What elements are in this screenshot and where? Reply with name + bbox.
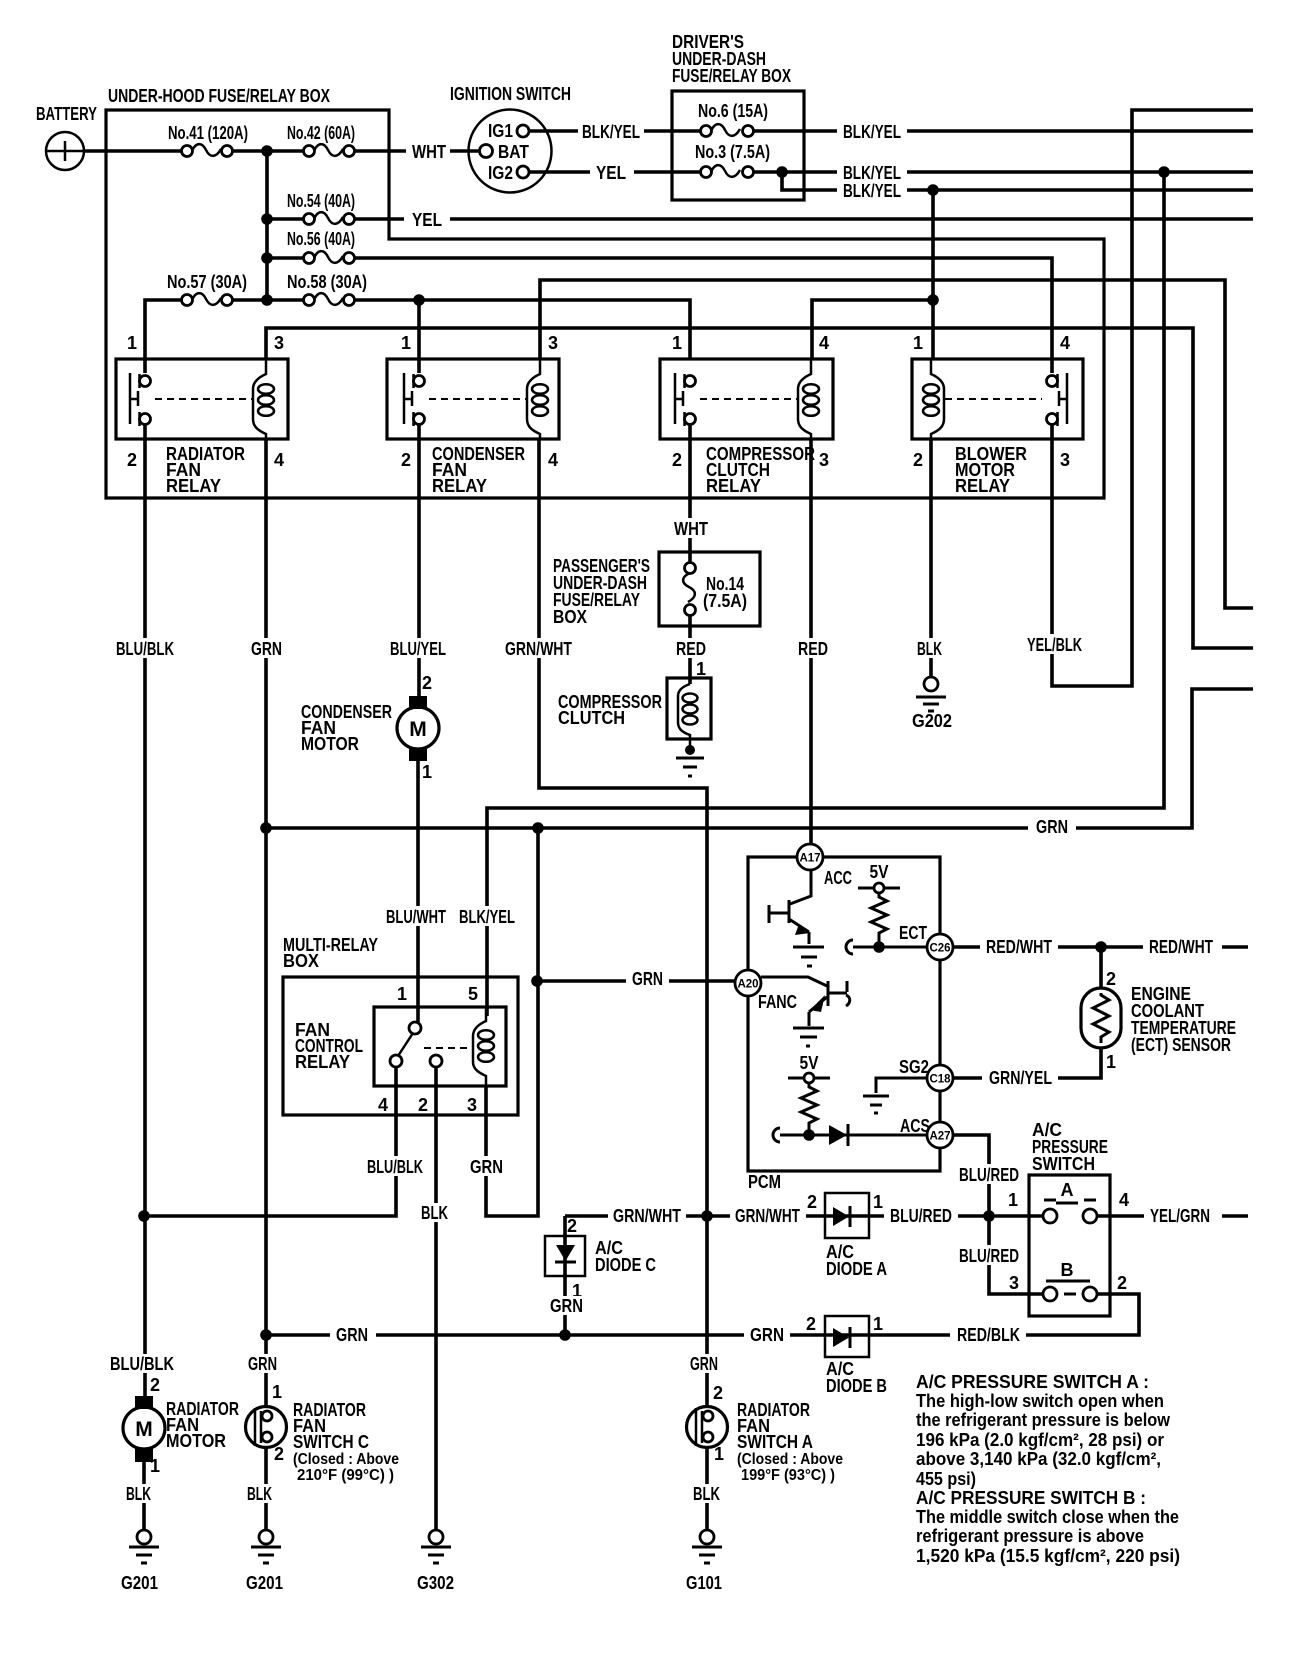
wire BLK/YEL riser to blower pin 1 [931, 190, 935, 359]
svg-text:G201: G201 [246, 1573, 283, 1593]
label pin numbers condenser relay [401, 333, 558, 470]
svg-text:SG2: SG2 [899, 1057, 929, 1077]
svg-text:RED: RED [676, 639, 706, 659]
wire compressor coil pin 4 feed [812, 300, 933, 359]
label A/C DIODE C [595, 1238, 656, 1275]
A/C diode B box [825, 1316, 869, 1357]
svg-text:BLK: BLK [693, 1484, 720, 1504]
fuse No.41 [182, 144, 233, 156]
compressor clutch relay [660, 359, 833, 439]
svg-text:1: 1 [1106, 1052, 1116, 1072]
label BLU/BLK bottom [106, 1354, 180, 1374]
svg-text:210°F (99°C) ): 210°F (99°C) ) [297, 1467, 394, 1484]
svg-text:4: 4 [1119, 1190, 1129, 1210]
svg-text:RED/BLK: RED/BLK [957, 1325, 1020, 1345]
svg-text:RED/WHT: RED/WHT [986, 937, 1052, 957]
multi-relay box outline [283, 977, 518, 1115]
svg-text:ACS: ACS [900, 1116, 930, 1136]
svg-text:3: 3 [274, 333, 284, 353]
svg-text:above 3,140 kPa (32.0 kgf/cm²,: above 3,140 kPa (32.0 kgf/cm², [916, 1449, 1161, 1469]
wire condenser relay pin 1 [417, 300, 421, 373]
label BLK blower pin 2 [912, 638, 949, 659]
wire No.56 row to blower pin 4 [267, 258, 1052, 373]
svg-text:DIODE A: DIODE A [826, 1259, 887, 1279]
wire GRN radiator pin 4 down to switch C [264, 439, 268, 1407]
svg-text:2: 2 [806, 1314, 816, 1334]
svg-text:2: 2 [1106, 969, 1116, 989]
label diode A pins [807, 1192, 883, 1212]
label CONDENSER FAN RELAY [432, 444, 525, 496]
wire No.3 BLK/YEL output [748, 170, 1253, 174]
5V reference lower [788, 1073, 830, 1083]
label YEL at IG2 [590, 162, 634, 183]
label pin numbers compressor relay [672, 333, 829, 470]
label YEL/GRN [1144, 1205, 1216, 1226]
svg-text:2: 2 [422, 673, 432, 693]
wire BLU/WHT motor to fan relay pin 1 [416, 761, 420, 1022]
svg-text:4: 4 [819, 333, 829, 353]
label BLK/YEL fan relay pin 5 [455, 906, 519, 927]
svg-text:1,520 kPa (15.5 kgf/cm², 220 p: 1,520 kPa (15.5 kgf/cm², 220 psi) [916, 1546, 1180, 1566]
label RED/WHT left [980, 936, 1058, 957]
svg-text:5: 5 [468, 984, 478, 1004]
label IG1 BAT IG2 [488, 121, 529, 183]
svg-text:GRN: GRN [248, 1354, 277, 1374]
svg-text:1: 1 [127, 333, 137, 353]
condenser fan motor [397, 696, 439, 761]
wire BLK/YEL branch jog [782, 172, 1253, 190]
svg-text:3: 3 [1009, 1273, 1019, 1293]
label MULTI-RELAY BOX [283, 935, 378, 971]
svg-text:BLK: BLK [917, 639, 942, 659]
label pin numbers blower relay [913, 333, 1070, 470]
fuse No.57 [182, 293, 233, 305]
label DRIVER'S UNDER-DASH FUSE/RELAY BOX [672, 32, 791, 86]
label RADIATOR FAN RELAY [166, 444, 245, 496]
svg-text:RELAY: RELAY [166, 476, 221, 496]
wire ECT sensor pin 1 and GRN/YEL to C18 [953, 1048, 1101, 1078]
label BLOWER MOTOR RELAY [955, 444, 1027, 496]
svg-text:BOX: BOX [283, 951, 319, 971]
svg-text:1: 1 [1008, 1190, 1018, 1210]
label GRN bottom row left [330, 1324, 376, 1345]
label pressure switch B and pins [1009, 1260, 1127, 1293]
svg-text:The high-low switch open when: The high-low switch open when [916, 1391, 1164, 1411]
label BLU/RED lower [954, 1245, 1024, 1266]
wire GRN row to PCM A20 [537, 979, 735, 983]
svg-text:4: 4 [378, 1095, 388, 1115]
svg-text:2: 2 [274, 1444, 284, 1464]
label PASSENGER'S UNDER-DASH FUSE/RELAY BOX [553, 556, 650, 627]
PCM connector C26 [927, 934, 953, 960]
wire No.58 row to compressor relay pin 1 [227, 300, 690, 359]
ECT sensor [1081, 988, 1121, 1048]
radiator fan motor [123, 1396, 165, 1462]
svg-text:3: 3 [467, 1095, 477, 1115]
svg-text:G302: G302 [417, 1573, 454, 1593]
5V reference upper [858, 883, 900, 893]
svg-text:BLU/BLK: BLU/BLK [110, 1354, 174, 1374]
label GRN above switch A [686, 1354, 724, 1374]
svg-text:GRN: GRN [336, 1325, 368, 1345]
svg-text:GRN/WHT: GRN/WHT [505, 639, 572, 659]
svg-text:the refrigerant pressure is be: the refrigerant pressure is below [916, 1410, 1171, 1430]
svg-text:BLU/WHT: BLU/WHT [386, 907, 446, 927]
svg-text:IG1: IG1 [488, 121, 513, 141]
label RED compressor pin 3 [792, 638, 834, 659]
svg-text:SWITCH C: SWITCH C [293, 1432, 369, 1452]
passenger's under-dash fuse/relay box outline [659, 552, 760, 626]
svg-text:IGNITION SWITCH: IGNITION SWITCH [450, 84, 571, 104]
svg-text:2: 2 [150, 1375, 160, 1395]
A/C pressure switch box [1029, 1175, 1110, 1316]
radiator fan switch A [687, 1407, 728, 1448]
svg-text:C18: C18 [929, 1074, 951, 1086]
svg-text:IG2: IG2 [488, 163, 513, 183]
svg-text:199°F (93°C) ): 199°F (93°C) ) [741, 1467, 835, 1484]
svg-text:B: B [1061, 1260, 1074, 1280]
svg-text:A17: A17 [799, 853, 820, 865]
label GRN before diode B [744, 1324, 790, 1345]
svg-text:G101: G101 [686, 1573, 722, 1593]
svg-text:1: 1 [873, 1192, 883, 1212]
A/C pressure switch B contacts [1043, 1281, 1097, 1301]
wire A/C diode C branch [563, 1216, 567, 1335]
wire radiator fan motor to G201 [142, 1461, 146, 1530]
ignition switch [469, 110, 552, 193]
wire BLK/YEL riser x=1164 to y=808 row to fan relay pin 5 [487, 172, 1164, 1016]
svg-text:BATTERY: BATTERY [36, 104, 97, 124]
svg-text:BLU/BLK: BLU/BLK [367, 1157, 423, 1177]
svg-text:BLU/BLK: BLU/BLK [116, 639, 174, 659]
fuse No.6 [701, 124, 754, 136]
svg-text:2: 2 [418, 1095, 428, 1115]
svg-text:A/C PRESSURE SWITCH A :: A/C PRESSURE SWITCH A : [916, 1372, 1149, 1392]
wire pressure switch B contacts lead [1029, 1292, 1110, 1296]
svg-text:refrigerant pressure is above: refrigerant pressure is above [916, 1526, 1144, 1546]
label BLK radiator motor [122, 1484, 156, 1504]
svg-text:RED/WHT: RED/WHT [1149, 937, 1213, 957]
svg-text:C26: C26 [929, 943, 950, 955]
svg-text:(Closed : Above: (Closed : Above [293, 1451, 399, 1468]
svg-text:GRN/YEL: GRN/YEL [989, 1068, 1052, 1088]
svg-text:A27: A27 [929, 1131, 950, 1143]
label COMPRESSOR CLUTCH RELAY [706, 444, 815, 496]
svg-text:GRN: GRN [251, 639, 282, 659]
svg-text:BLU/RED: BLU/RED [890, 1206, 952, 1226]
svg-text:BLK/YEL: BLK/YEL [582, 122, 640, 142]
svg-text:1: 1 [401, 333, 411, 353]
wire IG1 to No.6 fuse [529, 129, 706, 133]
wire bottom GRN row and RED/BLK to switch B pin 2 [266, 1294, 1139, 1335]
ACS row with diode inside PCM [773, 1124, 927, 1146]
svg-text:A/C PRESSURE SWITCH B :: A/C PRESSURE SWITCH B : [916, 1488, 1146, 1508]
svg-text:No.6 (15A): No.6 (15A) [698, 101, 768, 121]
svg-text:BLK: BLK [421, 1203, 448, 1223]
label BLK fan relay pin 2 [417, 1203, 455, 1223]
label A/C PRESSURE SWITCH [1032, 1120, 1108, 1174]
fuse No.58 [304, 293, 355, 305]
wire GRN/WHT row y=1216 [565, 1214, 1029, 1218]
ECT row inside PCM [846, 940, 927, 954]
fuse No.14 vertical [683, 563, 695, 616]
svg-text:(Closed : Above: (Closed : Above [737, 1451, 843, 1468]
svg-text:G201: G201 [121, 1573, 158, 1593]
label GRN/WHT row right [730, 1205, 806, 1226]
svg-text:The middle switch close when t: The middle switch close when the [916, 1507, 1179, 1527]
svg-text:2: 2 [713, 1383, 723, 1403]
svg-text:GRN: GRN [632, 969, 663, 989]
svg-text:M: M [409, 718, 427, 741]
transistor ACC [769, 870, 824, 966]
svg-text:1: 1 [397, 984, 407, 1004]
label RED compressor pin 2 [670, 638, 712, 659]
svg-text:No.42 (60A): No.42 (60A) [287, 123, 355, 143]
svg-text:1: 1 [422, 762, 432, 782]
A/C diode C symbol [555, 1245, 576, 1262]
ground G202 [916, 677, 946, 711]
wire switch A to G101 [705, 1447, 709, 1530]
svg-text:PCM: PCM [748, 1172, 781, 1192]
radiator fan switch C [246, 1407, 287, 1448]
label BLU/RED upper [954, 1164, 1024, 1185]
svg-text:No.58 (30A): No.58 (30A) [287, 272, 367, 292]
label BLU/BLK fan relay pin 4 [362, 1156, 428, 1177]
label BLU/WHT [380, 906, 452, 927]
svg-text:(ECT) SENSOR: (ECT) SENSOR [1131, 1035, 1231, 1055]
svg-text:No.54 (40A): No.54 (40A) [287, 191, 355, 211]
label GRN fan relay pin 3 [464, 1156, 509, 1177]
label YEL/BLK blower pin 3 [1022, 634, 1087, 655]
svg-text:3: 3 [1060, 450, 1070, 470]
svg-text:No.41 (120A): No.41 (120A) [168, 123, 248, 143]
wire GRN row y=828 to right exit [266, 689, 1253, 828]
label BLU/BLK column [112, 638, 178, 659]
resistor lower [801, 1083, 817, 1135]
wire RED compressor pin 3 to PCM A17 [809, 439, 813, 845]
svg-text:3: 3 [548, 333, 558, 353]
svg-text:UNDER-HOOD FUSE/RELAY BOX: UNDER-HOOD FUSE/RELAY BOX [108, 86, 330, 106]
svg-text:FUSE/RELAY BOX: FUSE/RELAY BOX [672, 66, 791, 86]
svg-text:GRN: GRN [1036, 817, 1068, 837]
fan control relay internals [390, 1007, 494, 1086]
wire No.57 to radiator relay pin 1 [145, 300, 187, 373]
PCM box outline [748, 857, 940, 1171]
svg-text:A: A [1061, 1180, 1074, 1200]
wire BLU/BLK fan relay pin 4 over to radiator fan column [144, 1067, 396, 1216]
label GRN below diode C [545, 1296, 590, 1316]
label ENGINE COOLANT TEMPERATURE (ECT) SENSOR [1131, 984, 1236, 1055]
label BLU/YEL column [384, 638, 452, 659]
svg-text:3: 3 [819, 450, 829, 470]
label GRN right row [1028, 817, 1076, 837]
svg-text:BLU/RED: BLU/RED [959, 1246, 1019, 1266]
svg-text:455 psi): 455 psi) [916, 1469, 976, 1489]
label FAN CONTROL RELAY [295, 1020, 363, 1072]
label A/C DIODE A [826, 1242, 887, 1279]
svg-text:YEL: YEL [412, 210, 442, 230]
compressor clutch ground [676, 745, 704, 776]
svg-text:GRN: GRN [470, 1157, 503, 1177]
svg-text:GRN/WHT: GRN/WHT [735, 1206, 800, 1226]
svg-text:BLK/YEL: BLK/YEL [843, 181, 901, 201]
label YEL No.54 row [404, 209, 450, 230]
fuse No.54 [304, 212, 355, 224]
wire BLU/BLK radiator pin 2 to radiator fan motor [143, 425, 147, 1396]
svg-text:GRN/WHT: GRN/WHT [613, 1206, 681, 1226]
label pressure switch A and pins [1008, 1180, 1129, 1210]
svg-text:RELAY: RELAY [432, 476, 487, 496]
svg-text:1: 1 [696, 659, 706, 679]
svg-text:SWITCH: SWITCH [1032, 1154, 1095, 1174]
svg-text:YEL/GRN: YEL/GRN [1150, 1206, 1210, 1226]
svg-text:A20: A20 [737, 979, 758, 991]
svg-text:4: 4 [548, 450, 558, 470]
label BLK/YEL row 2 [837, 162, 907, 183]
svg-text:M: M [135, 1418, 153, 1441]
label BLK switch C [243, 1484, 277, 1504]
wire PCM A27 BLU/RED to pressure switch [953, 1135, 1029, 1294]
svg-text:5V: 5V [800, 1053, 819, 1073]
wire condenser coil pin 3 row y=280 [540, 280, 1253, 608]
wire No.54 YEL row [267, 217, 1253, 221]
svg-text:BLK/YEL: BLK/YEL [843, 122, 901, 142]
svg-text:RELAY: RELAY [706, 476, 761, 496]
wire YEL/BLK blower pin 3 riser [1052, 110, 1253, 686]
A/C pressure switch A contacts [1043, 1200, 1097, 1223]
label BLK/YEL at IG1 [578, 121, 644, 142]
svg-text:2: 2 [913, 450, 923, 470]
wire fuse feed column x=267 [265, 151, 269, 300]
svg-text:1: 1 [672, 333, 682, 353]
fan control relay inner box [374, 1007, 506, 1086]
wire RED/WHT row from C26 [953, 945, 1248, 949]
label RADIATOR FAN MOTOR [166, 1399, 239, 1451]
svg-text:1: 1 [150, 1456, 160, 1476]
under-hood fuse/relay box outline [106, 110, 1104, 498]
svg-text:BLK/YEL: BLK/YEL [459, 907, 515, 927]
svg-text:DIODE C: DIODE C [595, 1255, 656, 1275]
label RADIATOR FAN SWITCH A [737, 1400, 843, 1484]
A/C diode A symbol [833, 1206, 850, 1227]
svg-text:FANC: FANC [758, 992, 797, 1012]
A/C diode A box [825, 1193, 869, 1238]
svg-text:BAT: BAT [498, 142, 529, 162]
svg-text:RELAY: RELAY [295, 1052, 350, 1072]
SG2 ground inside PCM [863, 1078, 927, 1113]
wire GRN/WHT condenser pin 4 down and over to switch A column [539, 439, 707, 1407]
blower motor relay [912, 359, 1083, 439]
label WHT above passenger box [666, 518, 714, 539]
wire ECT sensor pin 2 [1099, 947, 1103, 988]
svg-text:4: 4 [274, 450, 284, 470]
svg-text:SWITCH A: SWITCH A [737, 1432, 813, 1452]
svg-text:WHT: WHT [674, 519, 708, 539]
driver's under-dash fuse/relay box outline [672, 91, 804, 200]
PCM connector C18 [927, 1065, 953, 1091]
label BLU/RED after diode A [884, 1205, 958, 1226]
label A/C DIODE B [826, 1359, 887, 1396]
condenser fan relay [387, 359, 559, 439]
label RED/BLK [950, 1324, 1026, 1345]
fuse No.3 [701, 165, 754, 177]
label GRN/WHT row left [608, 1205, 686, 1226]
svg-text:1: 1 [873, 1314, 883, 1334]
ground G101 [692, 1530, 722, 1563]
svg-text:(7.5A): (7.5A) [703, 591, 747, 611]
label GRN column [245, 638, 288, 659]
compressor clutch box [667, 678, 711, 739]
svg-text:YEL: YEL [596, 163, 626, 183]
svg-text:2: 2 [401, 450, 411, 470]
svg-text:BLU/YEL: BLU/YEL [390, 639, 446, 659]
transistor FANC [761, 977, 850, 1046]
svg-text:RED: RED [798, 639, 828, 659]
wire BLU/YEL condenser pin 2 to condenser fan motor [417, 425, 421, 697]
svg-text:No.57 (30A): No.57 (30A) [167, 272, 247, 292]
resistor upper [871, 893, 887, 947]
wire radiator coil pin 3 row y=328 [266, 328, 1253, 648]
battery symbol [46, 132, 84, 170]
ground G201 radiator fan motor [129, 1530, 159, 1563]
wire IG2 to No.3 fuse [529, 170, 706, 174]
note text A/C pressure switch description [916, 1372, 1180, 1566]
fuse No.56 [304, 251, 355, 263]
svg-text:MOTOR: MOTOR [166, 1431, 226, 1451]
svg-text:2: 2 [672, 450, 682, 470]
svg-text:4: 4 [1060, 333, 1070, 353]
svg-text:1: 1 [272, 1382, 282, 1402]
svg-text:BOX: BOX [553, 607, 587, 627]
wire battery to WHT row [84, 149, 480, 153]
label pin numbers radiator relay [127, 333, 284, 470]
label BLK/YEL row 3 [837, 180, 907, 201]
A/C diode C box [545, 1236, 585, 1276]
PCM connector A20 [735, 970, 761, 996]
radiator fan relay [116, 359, 288, 439]
svg-text:ECT: ECT [899, 923, 927, 943]
fuse No.42 [304, 144, 355, 156]
svg-text:BLU/RED: BLU/RED [959, 1165, 1019, 1185]
A/C diode B symbol [833, 1327, 850, 1348]
label RED/WHT right [1143, 936, 1219, 957]
svg-text:ACC: ACC [824, 868, 852, 888]
label GRN to A20 [626, 969, 669, 989]
svg-text:1: 1 [714, 1444, 724, 1464]
svg-text:5V: 5V [870, 862, 889, 882]
svg-text:2: 2 [567, 1216, 577, 1236]
label GRN/YEL [982, 1067, 1058, 1088]
label No.14 (7.5A) [703, 574, 747, 611]
svg-text:RELAY: RELAY [955, 476, 1010, 496]
label WHT [406, 141, 450, 162]
svg-text:2: 2 [127, 450, 137, 470]
svg-text:1: 1 [913, 333, 923, 353]
svg-text:2: 2 [1117, 1273, 1127, 1293]
wire No.6 BLK/YEL output [748, 129, 1253, 133]
svg-text:BLK: BLK [247, 1484, 272, 1504]
svg-text:DIODE B: DIODE B [826, 1376, 887, 1396]
PCM connector A17 [797, 844, 823, 870]
ground G201 switch C [251, 1530, 281, 1563]
svg-text:GRN: GRN [750, 1325, 784, 1345]
svg-text:196 kPa (2.0 kgf/cm², 28 psi): 196 kPa (2.0 kgf/cm², 28 psi) or [916, 1430, 1164, 1450]
label BLK switch A [689, 1484, 725, 1504]
svg-text:GRN: GRN [690, 1354, 718, 1374]
label fan control relay pins [378, 984, 478, 1115]
wire GRN branch x=537 down and to fan relay pin 3 [486, 828, 538, 1216]
wire switch C to G201 [264, 1447, 268, 1530]
